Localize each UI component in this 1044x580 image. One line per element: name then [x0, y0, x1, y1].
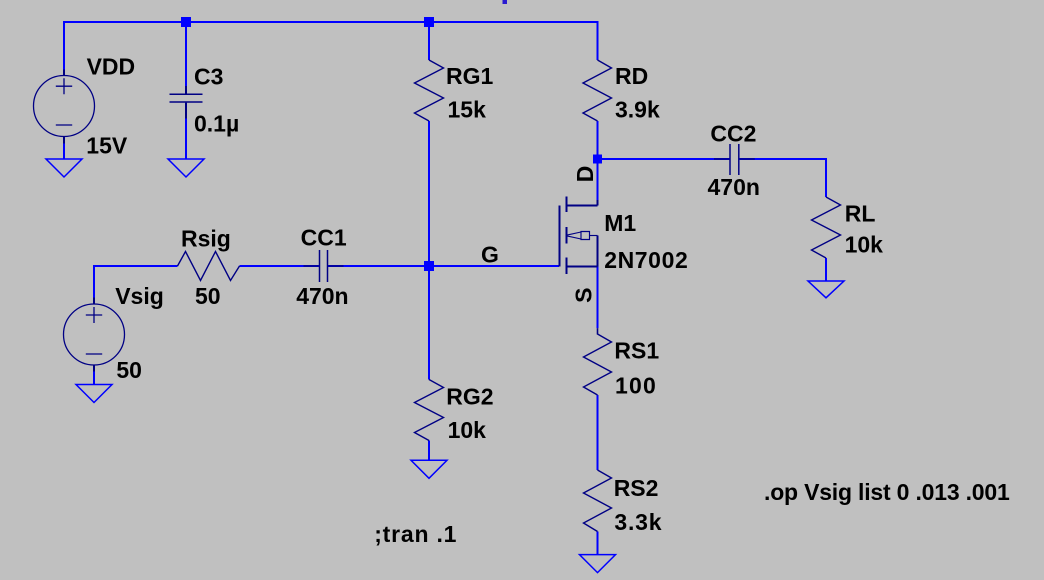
transistor M1 2N7002: [560, 197, 598, 275]
svg-text:CC1: CC1: [301, 225, 347, 251]
wire RS1 to RS2: [597, 395, 599, 470]
svg-text:S: S: [571, 288, 597, 303]
svg-text:470n: 470n: [296, 283, 348, 309]
svg-text:10k: 10k: [448, 417, 487, 443]
svg-text:G: G: [481, 241, 499, 267]
wire top rail VDD to RD: [64, 22, 598, 70]
svg-text:RD: RD: [615, 63, 648, 89]
resistor RL: [812, 197, 841, 258]
svg-text:15V: 15V: [86, 132, 128, 158]
wire CC1 to gate of M1: [328, 265, 560, 267]
svg-text:RS2: RS2: [614, 475, 659, 501]
ground VDD: [46, 159, 82, 177]
svg-text:RS1: RS1: [614, 337, 659, 363]
capacitor C3: [170, 94, 203, 102]
svg-text:2N7002: 2N7002: [604, 247, 688, 273]
RS1 symbol top lead: [597, 328, 599, 334]
wire C3 bottom to ground: [185, 119, 187, 160]
ground RG2: [411, 460, 447, 478]
C3 symbol top lead: [185, 86, 187, 94]
capacitor CC2: [714, 144, 755, 175]
svg-text:Vsig: Vsig: [115, 283, 164, 309]
resistor RG1: [415, 60, 444, 121]
Vsig symbol top lead: [93, 298, 95, 305]
wire Vsig minus to ground: [93, 372, 95, 385]
ground RL: [808, 281, 844, 298]
node junction RG1 top: [424, 17, 434, 27]
VDD symbol bottom lead: [63, 136, 65, 144]
svg-text:RG2: RG2: [446, 384, 493, 410]
ground Vsig: [76, 385, 112, 403]
cut-off text fragment top edge: [503, 0, 508, 4]
wire RD bottom to drain node: [597, 121, 599, 159]
svg-text:M1: M1: [604, 210, 636, 236]
ground C3: [168, 159, 204, 177]
resistor RG2: [415, 380, 444, 441]
wire M1 source to RS1: [597, 267, 599, 329]
node D drain: [593, 155, 602, 164]
svg-text:470n: 470n: [708, 174, 760, 200]
wire drain node to M1 drain: [597, 159, 599, 200]
Vsig symbol bottom lead: [93, 365, 95, 372]
resistor RS1: [584, 334, 612, 395]
voltage source Vsig: [64, 304, 125, 365]
svg-text:CC2: CC2: [710, 121, 756, 147]
svg-text:0.1µ: 0.1µ: [194, 110, 239, 136]
M1 drain lead: [597, 200, 599, 206]
wire C3 top drop: [185, 22, 187, 86]
svg-text:C3: C3: [194, 64, 223, 90]
wire RS2 to ground: [597, 532, 599, 555]
wire Rsig to CC1: [240, 265, 320, 267]
svg-text:3.3k: 3.3k: [614, 509, 662, 535]
capacitor CC1: [304, 250, 344, 282]
svg-text:3.9k: 3.9k: [615, 96, 660, 122]
wire RG1 bottom to G junction to RG2: [428, 121, 430, 380]
node junction C3 top: [181, 17, 191, 27]
svg-text:15k: 15k: [448, 96, 487, 122]
wire CC2 to RL: [739, 159, 826, 197]
resistor RD: [583, 60, 612, 121]
svg-text:50: 50: [195, 283, 221, 309]
resistor RS2: [584, 470, 612, 532]
wire RG2 bottom to ground: [428, 441, 430, 461]
svg-text:VDD: VDD: [87, 54, 136, 80]
svg-text:50: 50: [116, 357, 142, 383]
svg-text:RL: RL: [845, 200, 876, 226]
svg-text:D: D: [572, 166, 598, 183]
svg-text:Rsig: Rsig: [181, 226, 231, 252]
resistor Rsig: [178, 252, 240, 281]
svg-text:10k: 10k: [845, 231, 884, 257]
wire RG1 top drop: [428, 22, 430, 60]
voltage source VDD: [34, 76, 95, 137]
VDD symbol top lead: [63, 70, 65, 77]
C3 symbol bottom lead: [185, 103, 187, 119]
svg-text:RG1: RG1: [446, 63, 494, 89]
wire VDD minus to ground: [63, 144, 65, 160]
svg-text:.op Vsig list 0 .013 .001: .op Vsig list 0 .013 .001: [764, 479, 1010, 505]
ground RS2: [580, 555, 616, 573]
wire RL bottom to ground: [825, 258, 827, 281]
svg-text:;tran .1: ;tran .1: [374, 521, 457, 547]
node G gate junction: [424, 261, 434, 271]
svg-text:100: 100: [615, 373, 657, 399]
wire Vsig to Rsig: [94, 266, 178, 298]
wire drain node to CC2: [598, 158, 731, 160]
